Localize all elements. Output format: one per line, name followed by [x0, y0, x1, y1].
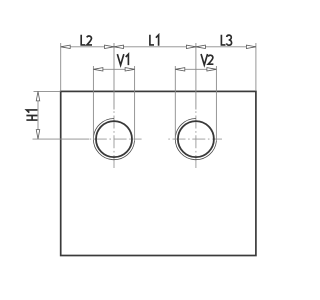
arrowhead L2 right [105, 45, 115, 49]
hole 1 thread arc [93, 119, 134, 160]
arrowhead V2 right [207, 68, 217, 72]
arrowhead H1 top [36, 91, 40, 101]
dimension line V2 [175, 68, 216, 70]
label L1 [150, 35, 159, 46]
hole 2 thread arc [175, 119, 216, 160]
extension line hole 1 center [113, 43, 115, 110]
arrowhead L3 right [246, 45, 256, 49]
extension line V2 right tangent [215, 66, 217, 141]
arrowhead L2 left [61, 45, 70, 49]
hole 2 (bore circle) [178, 121, 214, 157]
part outline (plate) [61, 91, 256, 255]
arrowhead L1 right [186, 45, 196, 49]
hole 2 centerline horizontal [168, 138, 222, 140]
extension line hole 2 center [195, 43, 197, 110]
dimension line V1 [93, 68, 134, 70]
arrowhead H1 bottom [36, 130, 40, 140]
extension line V2 left tangent [174, 66, 176, 140]
arrowhead L1 left [114, 45, 124, 49]
extension line H1 bottom [33, 138, 90, 140]
label V2 [201, 54, 213, 65]
extension line right edge [255, 43, 257, 91]
arrowhead L3 left [196, 45, 206, 49]
label H1 [26, 110, 37, 120]
dimension line top row [61, 46, 256, 48]
arrowhead V1 right [125, 68, 135, 72]
arrowhead V1 left [93, 68, 103, 72]
hole 1 (bore circle) [96, 121, 132, 157]
extension line V1 right tangent [134, 66, 136, 141]
dimension line H1 [37, 91, 39, 139]
arrowhead V2 left [175, 68, 185, 72]
extension line H1 top [34, 90, 61, 92]
extension line V1 left tangent [92, 66, 94, 140]
label V1 [117, 54, 128, 65]
label L2 [81, 35, 92, 45]
label L3 [221, 35, 231, 45]
hole 1 centerline horizontal [90, 138, 142, 140]
hole 1 centerline vertical [113, 111, 115, 168]
hole 2 centerline vertical [195, 111, 197, 168]
extension line left edge [60, 43, 62, 91]
